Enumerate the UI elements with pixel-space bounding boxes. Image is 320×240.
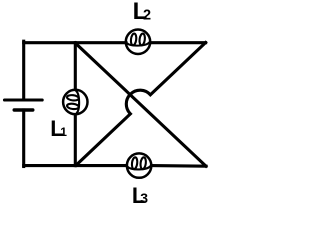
battery B1 long plate (+) <box>5 98 43 101</box>
lamp L1 filament <box>67 91 79 114</box>
wire bottom-left horizontal (battery - to node B) <box>24 164 127 167</box>
lamp L1 circle <box>63 90 87 114</box>
svg-text:1: 1 <box>60 125 67 139</box>
wire left vertical lower (battery - lead) <box>22 110 25 167</box>
lamp L2 circle <box>126 30 150 54</box>
wire top-right horizontal (lamp L2 to top-right corner) <box>151 41 206 44</box>
wire bottom-right horizontal (lamp L3 to bottom-right corner) <box>152 164 207 168</box>
lamp L3 circle <box>127 153 151 177</box>
lamp L2 filament <box>127 33 150 45</box>
wire diagonal node A to bottom-right corner <box>75 43 206 166</box>
lamp L3 filament <box>128 157 151 169</box>
wire middle vertical lower (lamp L1 to node B) <box>74 115 77 166</box>
wire top-left horizontal (battery + to node A) <box>24 41 126 44</box>
wire left vertical upper (battery + lead) <box>22 41 25 98</box>
svg-text:2: 2 <box>143 7 151 23</box>
wire middle vertical upper (node A to lamp L1) <box>74 43 77 90</box>
wire diagonal node B to top-right corner with crossover hop <box>76 43 206 166</box>
battery B1 short plate (-) <box>14 108 33 111</box>
svg-text:3: 3 <box>140 190 148 206</box>
